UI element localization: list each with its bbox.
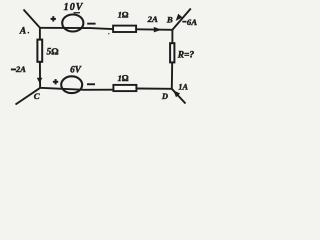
resistor R=? (right branch) (170, 43, 174, 62)
svg-text:1Ω: 1Ω (118, 10, 129, 20)
voltage source V1 10V (circle) (62, 15, 83, 32)
wire: B down to resistor R (171, 30, 173, 43)
arrowhead -2A pointing down (37, 78, 43, 83)
resistor 5ohm (left branch) (37, 40, 42, 62)
scan speckle (108, 33, 109, 34)
minus sign of V2 (87, 83, 95, 85)
svg-text:1A: 1A (178, 83, 188, 92)
svg-text:A: A (19, 27, 26, 37)
serif artifact under 10V (74, 12, 81, 13)
wire: 1A branch diagonal at D (172, 89, 186, 104)
wire: top from A to 1ohm resistor (40, 28, 113, 29)
svg-text:5Ω: 5Ω (47, 48, 59, 58)
svg-text:R=?: R=? (177, 51, 195, 61)
plus sign of V1 (51, 16, 56, 21)
svg-text:2A: 2A (147, 14, 158, 24)
svg-text:B: B (166, 14, 173, 24)
wire: 5ohm down to node C with -2A arrow (39, 62, 41, 88)
wire: bottom resistor to node D (136, 88, 171, 90)
svg-text:D: D (161, 92, 168, 101)
wire: A down to 5ohm resistor (39, 28, 41, 39)
wire: -6A branch diagonal at B (172, 9, 191, 30)
plus sign of V2 (53, 79, 58, 84)
svg-text:10V: 10V (64, 2, 84, 13)
svg-text:C: C (34, 91, 40, 101)
label -6A (182, 21, 186, 23)
minus sign of V1 (87, 23, 95, 25)
svg-text:6A: 6A (187, 17, 197, 27)
label -2A (11, 69, 16, 71)
wire: external stub into node A (24, 10, 40, 28)
resistor R_top 1ohm (113, 26, 136, 32)
arrowhead 2A (154, 27, 162, 33)
wire: resistor to node B with 2A arrow (137, 28, 172, 31)
voltage source V2 6V (circle) (61, 76, 82, 93)
wire: external stub from node C (16, 88, 41, 105)
wire: bottom from C to 1ohm resistor (40, 88, 113, 90)
svg-text:2A: 2A (15, 65, 26, 74)
paper background (0, 0, 240, 109)
svg-text:1Ω: 1Ω (118, 73, 129, 83)
arrowhead 1A pointing to D (173, 90, 180, 97)
svg-text:6V: 6V (70, 65, 82, 75)
wire: resistor R down to node D (171, 63, 173, 89)
arrowhead -6A pointing to B (176, 14, 183, 21)
resistor R_bottom 1ohm (113, 85, 136, 91)
